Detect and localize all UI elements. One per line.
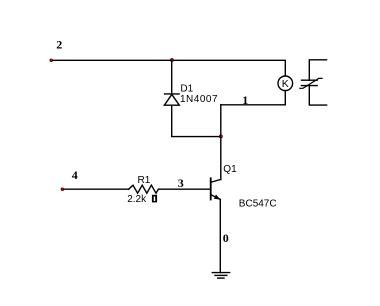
wire net2 top rail xyxy=(52,60,285,76)
node terminal dot net2 xyxy=(50,59,53,62)
relay contact moving arm diagonal xyxy=(300,78,322,88)
wire net1 vertical to collector xyxy=(220,105,222,180)
svg-text:R1: R1 xyxy=(138,175,151,186)
svg-text:2.2k: 2.2k xyxy=(127,194,147,205)
wire net3 resistor to base xyxy=(158,188,210,190)
resistor R1 zigzag xyxy=(129,185,159,193)
relay contact lower plate xyxy=(302,85,318,87)
transistor Q1 base bar xyxy=(210,178,212,199)
svg-text:Q1: Q1 xyxy=(223,164,237,175)
ground symbol xyxy=(212,273,229,279)
wire emitter to ground xyxy=(219,199,221,272)
ohm box glyph xyxy=(152,195,157,203)
svg-text:1N4007: 1N4007 xyxy=(180,94,218,105)
diode D1 triangle xyxy=(164,94,179,105)
relay coil K1 xyxy=(278,76,293,91)
relay contact upper plate xyxy=(302,79,318,81)
svg-text:4: 4 xyxy=(72,168,78,182)
transistor Q1 emitter arrowhead xyxy=(214,195,221,200)
svg-text:BC547C: BC547C xyxy=(239,199,277,210)
transistor Q1 collector diagonal xyxy=(211,180,221,183)
wire coil bottom to net1 xyxy=(221,91,285,105)
svg-text:3: 3 xyxy=(178,176,184,190)
svg-text:2: 2 xyxy=(56,37,62,51)
relay contact K1 vertical + stubs xyxy=(309,60,326,80)
wire net4 to resistor xyxy=(64,188,129,190)
transistor Q1 emitter diagonal xyxy=(211,195,221,200)
junction dot net1/diode xyxy=(219,135,223,139)
svg-text:1: 1 xyxy=(242,93,248,107)
svg-text:0: 0 xyxy=(223,231,229,245)
diode D1 cathode bar xyxy=(165,93,180,95)
wire diode anode to junction xyxy=(172,105,221,136)
node terminal dot net4 xyxy=(61,188,64,191)
wire diode branch vertical top xyxy=(171,60,173,94)
svg-text:K: K xyxy=(282,78,289,90)
junction dot net2/diode xyxy=(170,58,174,62)
